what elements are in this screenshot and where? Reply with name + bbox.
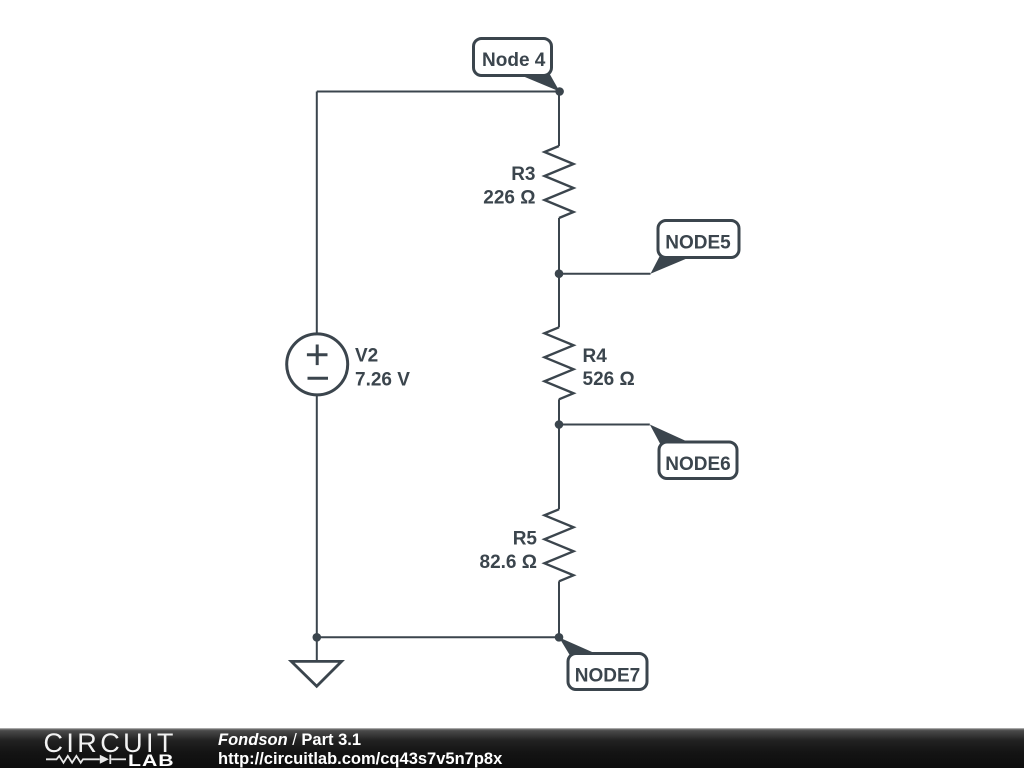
svg-text:NODE7: NODE7: [575, 666, 640, 687]
svg-text:Fondson / Part 3.1: Fondson / Part 3.1: [218, 731, 361, 749]
svg-text:R5: R5: [513, 529, 538, 550]
svg-text:http://circuitlab.com/cq43s7v5: http://circuitlab.com/cq43s7v5n7p8x: [218, 750, 503, 768]
svg-text:7.26 V: 7.26 V: [355, 369, 410, 390]
svg-text:R4: R4: [583, 346, 608, 367]
svg-text:226 Ω: 226 Ω: [483, 187, 535, 208]
svg-text:R3: R3: [511, 164, 535, 185]
svg-text:82.6 Ω: 82.6 Ω: [480, 552, 538, 573]
svg-text:NODE6: NODE6: [665, 454, 730, 475]
svg-text:Node 4: Node 4: [482, 50, 546, 71]
svg-text:V2: V2: [355, 346, 378, 367]
svg-text:LAB: LAB: [128, 752, 175, 768]
svg-text:NODE5: NODE5: [665, 232, 731, 253]
svg-text:526 Ω: 526 Ω: [583, 369, 635, 390]
